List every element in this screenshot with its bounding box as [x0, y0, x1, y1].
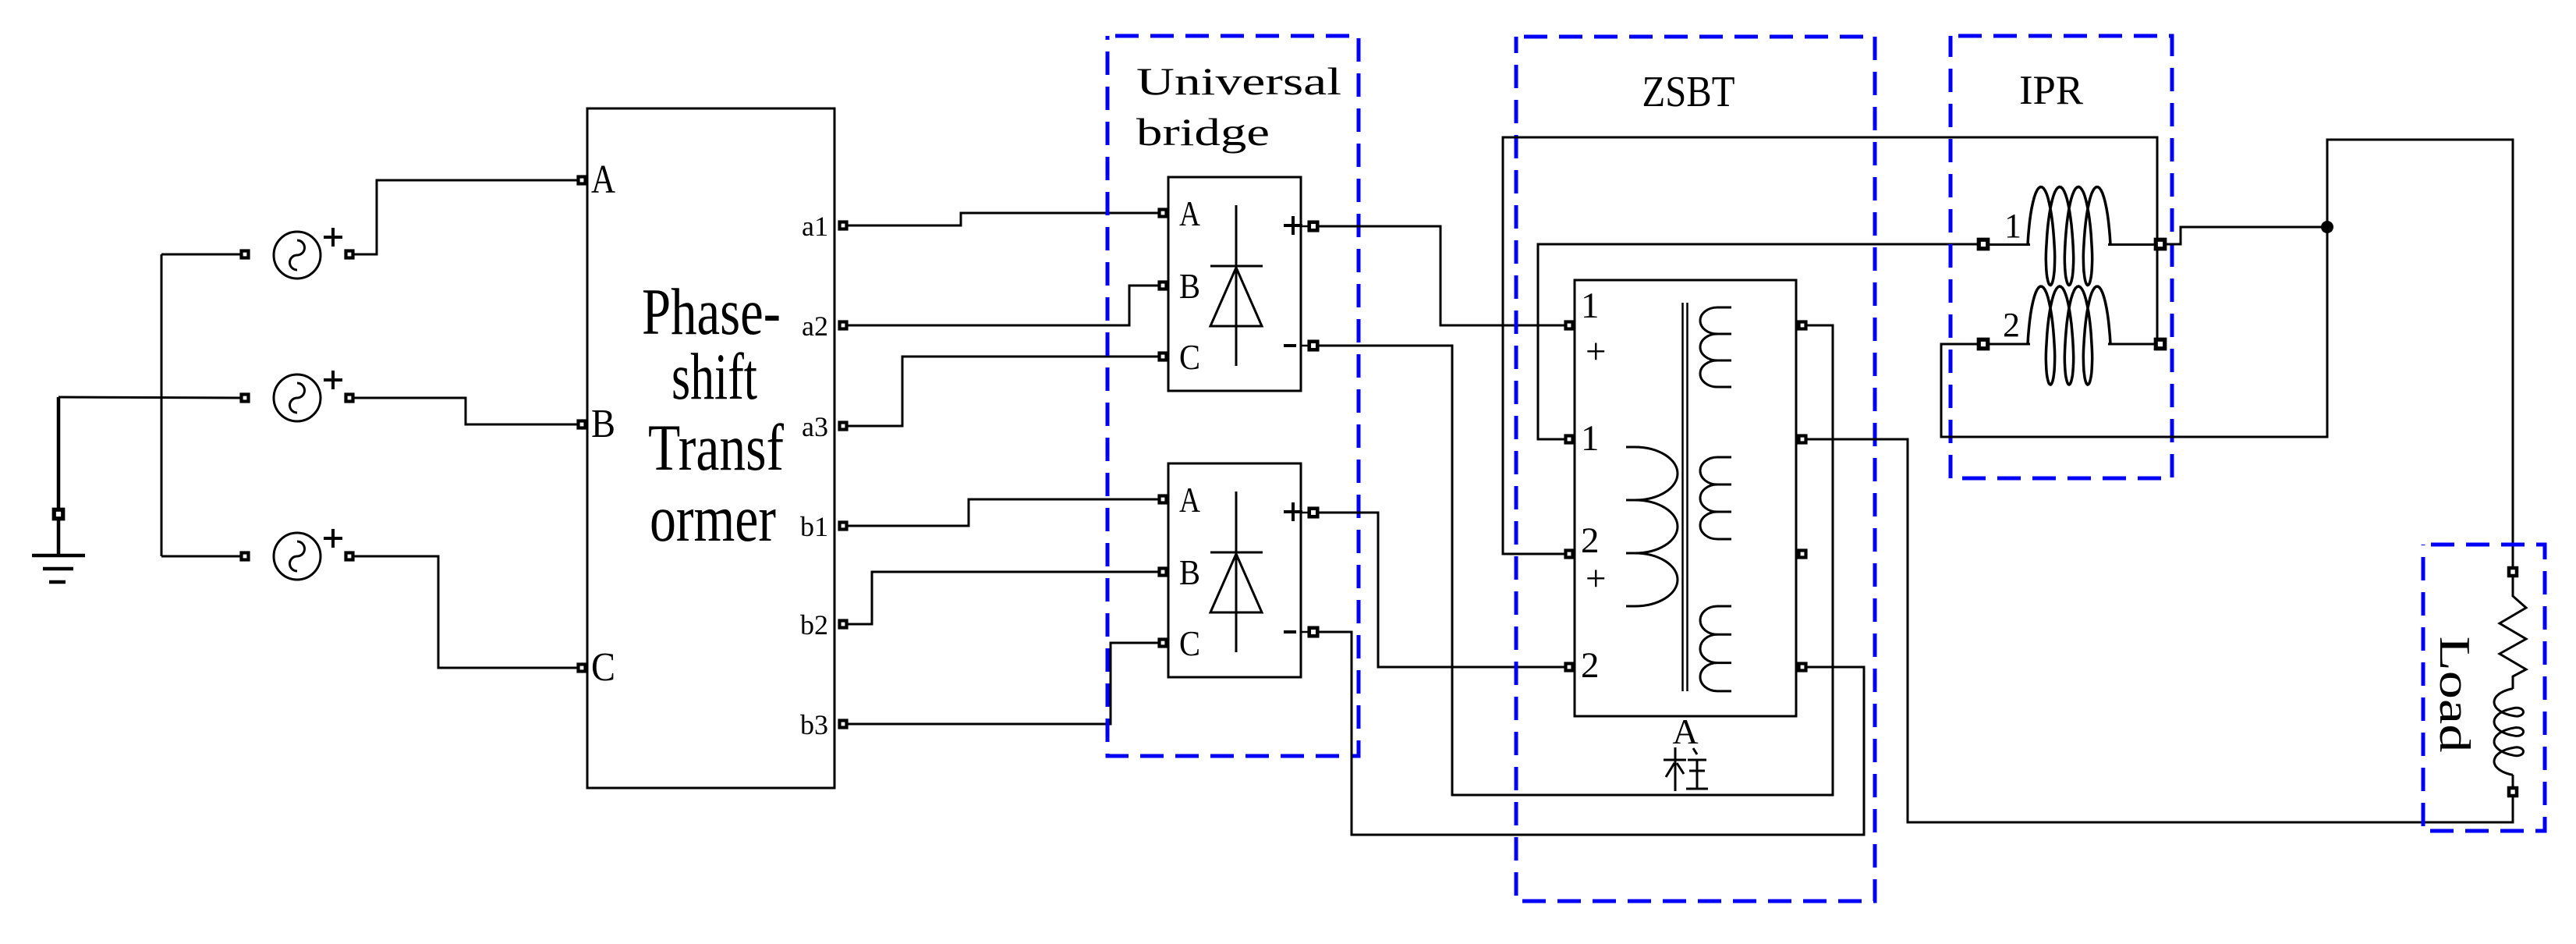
svg-text:ormer: ormer: [650, 482, 776, 555]
inductor L load: [2494, 676, 2524, 787]
ZSBT group box: [1516, 37, 1875, 901]
wire ZSBT L3 to IPR common: [1503, 137, 2157, 554]
IPR group box: [1951, 36, 2172, 478]
wire V2 to B: [354, 398, 577, 424]
diode bridge U1: [1168, 177, 1302, 391]
wire bus to V1 left: [161, 254, 240, 256]
port V1 left: [242, 251, 249, 258]
svg-text:IPR: IPR: [2019, 68, 2084, 113]
svg-text:a3: a3: [802, 411, 828, 442]
port ZSBT L2: [1566, 436, 1573, 443]
svg-text:a2: a2: [802, 311, 828, 342]
svg-text:bridge: bridge: [1136, 110, 1270, 154]
port T1 b3: [840, 721, 847, 728]
port IPR 2 right: [2156, 339, 2165, 349]
svg-text:a1: a1: [802, 211, 828, 242]
stub ZSBT R4: [1796, 666, 1802, 669]
svg-text:A: A: [1179, 480, 1200, 520]
port ZSBT R2: [1799, 436, 1806, 443]
svg-text:1: 1: [2004, 207, 2021, 245]
port ZSBT L1: [1566, 322, 1573, 329]
port V2 right: [346, 395, 353, 402]
stub U1 plus: [1301, 225, 1309, 228]
label zhu (Chinese) below ZSBT block: [1664, 747, 1708, 791]
svg-text:2: 2: [2003, 306, 2020, 344]
svg-text:B: B: [591, 402, 615, 446]
port T1 a2: [840, 322, 847, 329]
transformer T1 (Phase-shift Transformer): [587, 108, 834, 788]
svg-text:Phase-: Phase-: [642, 275, 781, 349]
inductor IPR winding 2: [1989, 286, 2154, 385]
svg-text:1: 1: [1581, 418, 1600, 459]
core: [1683, 303, 1688, 691]
port V3 right: [346, 553, 353, 560]
wire neutral bus: [161, 254, 163, 556]
port U1 plus: [1309, 222, 1318, 231]
port IPR 1 right: [2156, 240, 2165, 249]
svg-text:b1: b1: [800, 511, 828, 542]
port U2 minus: [1309, 628, 1318, 637]
port U2 C: [1160, 640, 1167, 647]
svg-text:ZSBT: ZSBT: [1642, 68, 1735, 116]
ground port: [54, 509, 63, 519]
port ZSBT L4: [1566, 664, 1573, 671]
svg-text:C: C: [591, 645, 615, 690]
wire b3 to U2.C: [848, 643, 1158, 724]
port ZSBT R3: [1799, 551, 1806, 558]
port T1 A: [579, 177, 586, 184]
port ZSBT R4: [1799, 664, 1806, 671]
wire b2 to U2.B: [848, 572, 1158, 624]
resistor R load: [2500, 577, 2526, 687]
wire IPR1 out to node N1: [2165, 227, 2327, 244]
port T1 a3: [840, 423, 847, 430]
wire bus to V3 left: [161, 555, 240, 558]
Load group box: [2423, 545, 2545, 831]
port T1 b1: [840, 523, 847, 530]
svg-text:1: 1: [1581, 286, 1600, 326]
svg-text:b2: b2: [800, 609, 828, 641]
wire IPR2 return to node N1: [1941, 227, 2327, 437]
wire ZSBT L2 to IPR 1: [1538, 244, 1978, 439]
transformer ZSBT A-limb block: [1575, 280, 1796, 716]
node N1 junction: [2321, 221, 2333, 233]
port ZSBT R1: [1799, 322, 1806, 329]
svg-text:2: 2: [1581, 520, 1600, 561]
svg-text:B: B: [1179, 552, 1200, 592]
port U1 A: [1160, 210, 1167, 217]
port U1 B: [1160, 282, 1167, 289]
svg-text:Universal: Universal: [1136, 59, 1341, 103]
stub ZSBT R3: [1796, 553, 1802, 555]
port IPR 2 left: [1979, 339, 1988, 349]
AC source V1: [274, 228, 342, 279]
port T1 b2: [840, 621, 847, 628]
svg-text:A: A: [591, 158, 615, 202]
port T1 C: [579, 665, 586, 672]
svg-text:A: A: [1179, 193, 1200, 233]
wire ZSBT R2 to Load bottom: [1807, 439, 2513, 822]
wire node N1 to Load top: [2327, 140, 2513, 567]
winding left (limb winding): [1626, 447, 1678, 606]
wire ground to source V2: [58, 397, 240, 398]
svg-text:b3: b3: [800, 709, 828, 740]
svg-text:C: C: [1179, 337, 1200, 377]
svg-text:A: A: [1672, 712, 1698, 751]
AC source V3: [274, 529, 342, 580]
wire V3 to C: [354, 556, 577, 668]
stub ZSBT R2: [1796, 438, 1802, 441]
port U1 minus: [1309, 342, 1318, 350]
wire a2 to U1.B: [848, 286, 1158, 325]
svg-text:Load: Load: [2430, 637, 2479, 753]
port V1 right: [346, 251, 353, 258]
svg-text:Transf: Transf: [648, 411, 785, 484]
svg-text:C: C: [1179, 623, 1200, 663]
stub U1 minus: [1301, 345, 1309, 347]
wire U1 plus to ZSBT L1: [1318, 226, 1564, 325]
port T1 B: [579, 421, 586, 428]
port U2 plus: [1309, 509, 1318, 517]
wire U1 minus to ZSBT R1: [1318, 325, 1833, 795]
port U1 C: [1160, 353, 1167, 360]
wire U2 plus to ZSBT L4: [1318, 513, 1564, 667]
wire a3 to U1.C: [848, 357, 1158, 426]
port Load top: [2509, 568, 2517, 576]
port IPR 1 left: [1979, 240, 1988, 249]
svg-text:+: +: [1586, 332, 1607, 372]
port U2 A: [1160, 496, 1167, 503]
wire a1 to U1.A: [848, 213, 1158, 225]
port V3 left: [242, 553, 249, 560]
Universal bridge group box: [1107, 36, 1359, 756]
svg-text:B: B: [1179, 266, 1200, 306]
AC source V2: [274, 371, 342, 421]
wire U2 minus to ZSBT R4: [1318, 632, 1864, 835]
port T1 a1: [840, 222, 847, 229]
port V2 left: [242, 395, 249, 402]
inductor IPR winding 1: [1989, 187, 2154, 286]
windings right (secondary windings): [1700, 307, 1731, 387]
port U2 B: [1160, 569, 1167, 576]
wire b1 to U2.A: [848, 499, 1158, 526]
svg-text:shift: shift: [671, 340, 757, 413]
wire V1 to A: [354, 180, 577, 254]
port Load bottom: [2509, 788, 2517, 796]
ground: [32, 397, 85, 582]
stub U2 plus: [1301, 512, 1309, 514]
port ZSBT L3: [1566, 551, 1573, 558]
stub U2 minus: [1301, 631, 1309, 633]
svg-text:2: 2: [1581, 645, 1600, 686]
svg-text:+: +: [1586, 559, 1607, 599]
stub ZSBT R1: [1796, 325, 1802, 327]
diode bridge U2: [1168, 463, 1302, 677]
